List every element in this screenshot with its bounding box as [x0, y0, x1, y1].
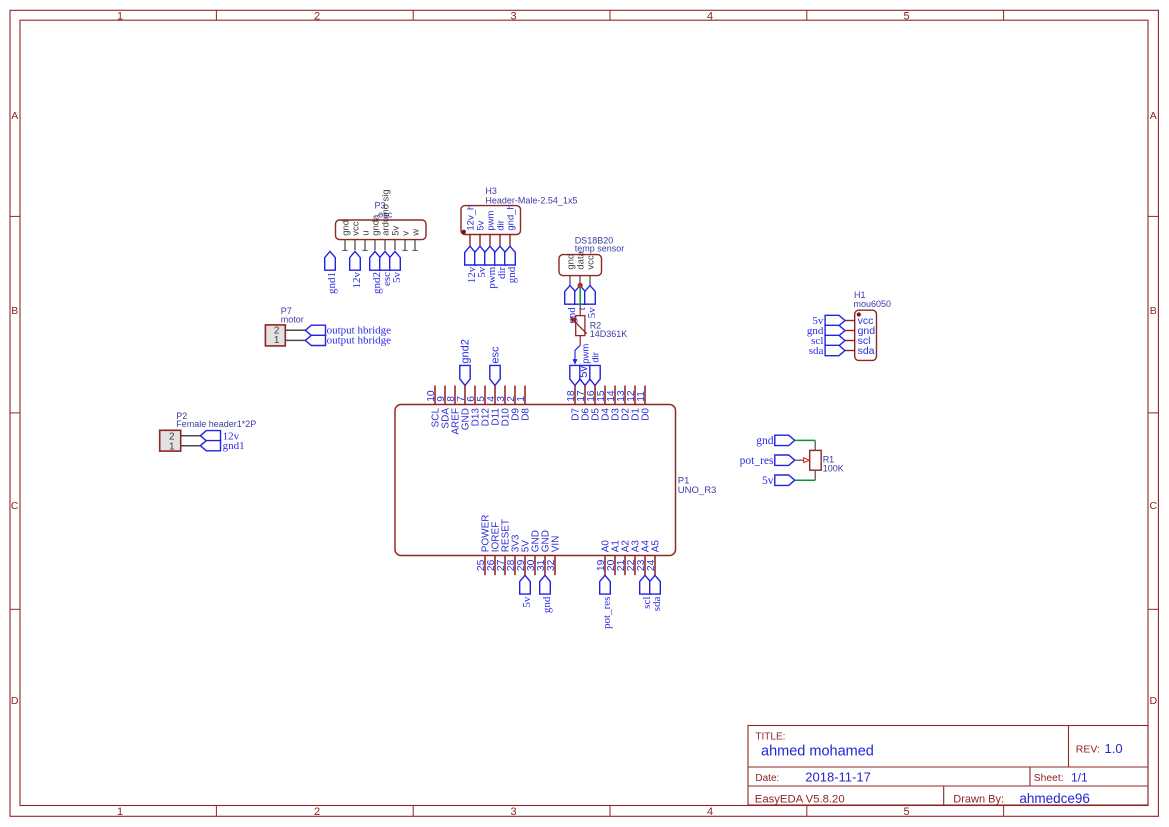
connector P3 esc body [336, 220, 427, 240]
net flag sda on H1 [825, 345, 845, 355]
UNO pin 26 IOREF [494, 556, 496, 576]
svg-text:A5: A5 [651, 540, 662, 553]
svg-text:gnd: gnd [541, 596, 553, 613]
svg-text:sda: sda [858, 345, 875, 357]
UNO pin 12 D1 [634, 386, 636, 405]
varistor R2 body [576, 316, 585, 336]
P7 pin 1 [285, 339, 305, 341]
potentiometer R1 body [810, 450, 822, 470]
svg-text:D: D [11, 695, 19, 707]
net flag gnd1 (floating) [325, 251, 336, 270]
header H3 body [461, 206, 521, 235]
P3 pin 5v [394, 240, 396, 251]
svg-text:ahmed mohamed: ahmed mohamed [761, 743, 874, 759]
UNO pin 21 A2 [624, 556, 626, 576]
H1 pin gnd [845, 330, 855, 332]
UNO pin 32 VIN [554, 556, 556, 576]
UNO pin 10 SCL [434, 386, 436, 405]
svg-text:3: 3 [510, 806, 516, 818]
svg-text:14D361K: 14D361K [590, 329, 628, 339]
svg-text:REV:: REV: [1076, 744, 1100, 756]
R1 bottom pin [814, 470, 816, 480]
svg-text:C: C [11, 500, 19, 512]
svg-text:EasyEDA V5.8.20: EasyEDA V5.8.20 [755, 794, 845, 806]
svg-text:1/1: 1/1 [1071, 771, 1088, 785]
header H1 pin 1 dot [857, 312, 861, 316]
UNO pin 16 D5 [594, 386, 596, 405]
title block divider drawn by [943, 786, 945, 805]
net flag 12v on P3 pin vcc [350, 251, 361, 270]
P3 pin gnda [374, 240, 376, 251]
svg-text:C: C [1150, 500, 1158, 512]
net flag pwm on H3 [485, 246, 496, 265]
svg-text:pot_res: pot_res [740, 455, 774, 467]
net port gnd1 on P2 pin 1 [200, 441, 220, 451]
H3 pin pwm [489, 235, 491, 247]
UNO pin 9 SDA [444, 386, 446, 405]
net flag scl on UNO pin 23 A4 [640, 575, 651, 594]
svg-text:5: 5 [903, 806, 909, 818]
svg-text:ahmedce96: ahmedce96 [1019, 791, 1090, 806]
UNO pin 6 D13 [474, 386, 476, 405]
UNO pin 1 D8 [524, 386, 526, 405]
P3 unconnected pin end mark [402, 249, 407, 251]
svg-text:mou6050: mou6050 [854, 299, 892, 309]
title block divider sheet [1029, 767, 1031, 786]
wire 5v to R1 bottom [795, 479, 816, 481]
net flag sda on UNO pin 24 A5 [650, 575, 661, 594]
P2 pin 1 [181, 445, 201, 447]
UNO pin 23 A4 [644, 556, 646, 576]
svg-text:5v: 5v [578, 365, 590, 377]
svg-text:vcc: vcc [585, 255, 596, 270]
frame row ticks left [10, 215, 20, 217]
svg-text:1: 1 [117, 11, 123, 23]
P3 pin v [404, 240, 406, 251]
svg-text:24: 24 [646, 559, 657, 571]
svg-text:gnd2: gnd2 [460, 339, 472, 363]
frame row ticks right [1148, 215, 1158, 217]
svg-text:32: 32 [546, 559, 557, 571]
varistor R2 arrow head [571, 317, 576, 322]
svg-text:5v: 5v [586, 307, 598, 319]
net flag gnd on H3 [505, 246, 516, 265]
svg-text:gnd1: gnd1 [326, 272, 338, 294]
R1 top pin [814, 440, 816, 450]
UNO pin 2 D9 [514, 386, 516, 405]
net flag 5v on P3 pin 5v [390, 251, 401, 270]
svg-text:VIN: VIN [551, 536, 562, 553]
svg-text:2: 2 [314, 11, 320, 23]
header H3 pin 1 dot [462, 230, 466, 234]
P3 pin gnd [344, 240, 346, 251]
arduino P1 UNO_R3 body [395, 405, 676, 556]
DS18B20 pin gnd [569, 276, 571, 286]
net flag esc on UNO pin 4 [490, 365, 500, 385]
title block outer box [748, 726, 1148, 806]
svg-text:gnd: gnd [756, 435, 774, 447]
wire data net green [579, 285, 581, 306]
UNO pin 29 5V [524, 556, 526, 576]
svg-text:gnd1: gnd1 [223, 440, 245, 452]
header H1 body [855, 310, 877, 360]
net flag 5v to R1 [775, 475, 795, 485]
net flag dir on UNO pin 16 D5 [590, 365, 600, 385]
net flag gnd on H1 [825, 325, 845, 335]
svg-text:output hbridge: output hbridge [327, 335, 392, 347]
net flag 5v on UNO pin 29 [520, 575, 531, 594]
DS18B20 pin data [579, 276, 581, 286]
svg-text:D0: D0 [641, 408, 652, 421]
H3 pin 5v [479, 235, 481, 247]
P3 pin arduino sig [384, 240, 386, 251]
wire R2 top [579, 306, 581, 315]
svg-text:5v: 5v [391, 272, 403, 284]
UNO pin 24 A5 [654, 556, 656, 576]
varistor R2 diagonal stroke [573, 320, 586, 334]
title block divider rev [1068, 726, 1070, 768]
svg-text:B: B [11, 305, 18, 317]
net flag gnd to R1 [775, 435, 795, 445]
svg-text:1: 1 [117, 806, 123, 818]
svg-text:sda: sda [809, 345, 824, 357]
wire R2 bottom [579, 336, 581, 346]
UNO pin 5 D12 [484, 386, 486, 405]
H3 pin gnd_h [509, 235, 511, 247]
H1 pin sda [845, 350, 855, 352]
svg-text:B: B [1150, 305, 1157, 317]
net flag esc on P3 pin arduino sig [380, 251, 391, 270]
P3 unconnected pin end mark [412, 249, 417, 251]
svg-text:5v: 5v [521, 596, 533, 608]
title block line under title row [748, 766, 1148, 768]
svg-text:5v: 5v [762, 475, 774, 487]
svg-text:11: 11 [636, 391, 647, 402]
frame column ticks top [215, 10, 217, 20]
UNO pin 30 GND [534, 556, 536, 576]
svg-text:sda: sda [651, 596, 663, 611]
net flag 5v on H1 [825, 315, 845, 325]
svg-text:esc: esc [490, 346, 502, 364]
svg-text:A: A [1150, 110, 1157, 122]
net flag pot_res on UNO pin 19 A0 [600, 575, 611, 594]
UNO pin 8 AREF [454, 386, 456, 405]
svg-text:motor: motor [281, 314, 304, 324]
svg-text:2018-11-17: 2018-11-17 [805, 770, 871, 785]
UNO pin 11 D0 [644, 386, 646, 405]
svg-text:12v: 12v [351, 272, 363, 289]
net flag scl on H1 [825, 335, 845, 345]
svg-text:1: 1 [274, 335, 280, 346]
P3 pin w [414, 240, 416, 251]
svg-text:4: 4 [707, 806, 713, 818]
svg-text:gnd_h: gnd_h [505, 204, 516, 230]
svg-text:gnd: gnd [506, 266, 518, 283]
svg-text:dir: dir [590, 352, 601, 363]
blue wire arrow head [573, 359, 577, 364]
P3 pin vcc [354, 240, 356, 251]
svg-text:4: 4 [707, 11, 713, 23]
H3 pin dir [499, 235, 501, 247]
svg-text:A: A [11, 110, 18, 122]
net flag gnd on UNO pin 31 [540, 575, 551, 594]
UNO pin 31 GND [544, 556, 546, 576]
UNO pin 20 A1 [614, 556, 616, 576]
svg-text:2: 2 [314, 806, 320, 818]
svg-text:Date:: Date: [755, 773, 779, 784]
svg-text:1: 1 [169, 441, 175, 452]
net flag 5v on H3 [475, 246, 486, 265]
svg-text:100K: 100K [823, 463, 844, 473]
H1 pin vcc [845, 320, 855, 322]
H1 pin scl [845, 340, 855, 342]
UNO pin 25 POWER [484, 556, 486, 576]
svg-text:D: D [1150, 695, 1158, 707]
UNO pin 28 3V3 [514, 556, 516, 576]
R1 wiper arrow head [804, 458, 810, 463]
net flag gnd2 on UNO pin 7 [460, 365, 470, 385]
P3 unconnected pin end mark [362, 249, 367, 251]
title block line under date row [748, 785, 1148, 787]
net port 12v on P2 pin 2 [200, 431, 220, 441]
svg-text:UNO_R3: UNO_R3 [678, 485, 717, 496]
UNO pin 15 D4 [604, 386, 606, 405]
net flag 12v on H3 [465, 246, 476, 265]
wire gnd to R1 top [795, 439, 816, 441]
connector P2 body [160, 430, 181, 451]
UNO pin 22 A3 [634, 556, 636, 576]
UNO pin 27 RESET [504, 556, 506, 576]
UNO pin 3 D10 [504, 386, 506, 405]
connector P7 body [265, 325, 285, 346]
svg-text:Drawn By:: Drawn By: [953, 794, 1004, 806]
P7 pin 2 [285, 329, 305, 331]
UNO pin 7 GND [464, 386, 466, 405]
svg-text:w: w [410, 229, 421, 237]
net flag pwm on UNO pin 17 D6 [580, 365, 590, 385]
P3 pin u [364, 240, 366, 251]
P3 unconnected pin end mark [342, 249, 347, 251]
svg-text:Female header1*2P: Female header1*2P [176, 419, 256, 429]
junction on DS18B20 data pin [578, 283, 583, 288]
UNO pin 18 D7 [574, 386, 576, 405]
P2 pin 2 [181, 435, 201, 437]
svg-text:pot_res: pot_res [601, 597, 613, 629]
net port output hbridge on P7 pin 2 [305, 325, 325, 335]
net flag 5v on DS18B20 vcc [585, 285, 596, 304]
svg-text:5: 5 [903, 11, 909, 23]
UNO pin 17 D6 [584, 386, 586, 405]
R1 wiper pin [795, 459, 806, 461]
net port output hbridge on P7 pin 1 [305, 335, 325, 345]
svg-text:Header-Male-2.54_1x5: Header-Male-2.54_1x5 [485, 195, 577, 205]
net flag pot_res to R1 wiper [775, 455, 795, 465]
H3 pin 12v_h [469, 235, 471, 247]
frame column ticks bottom [215, 806, 217, 817]
sensor DS18B20 body [559, 255, 602, 276]
net flag gnd2 on P3 pin gnda [370, 251, 381, 270]
blue wire from R2 to D7 flag [575, 345, 580, 360]
svg-text:1.0: 1.0 [1105, 741, 1123, 756]
UNO pin 13 D2 [624, 386, 626, 405]
UNO pin 4 D11 [494, 386, 496, 405]
DS18B20 pin vcc [589, 276, 591, 286]
svg-text:TITLE:: TITLE: [755, 731, 785, 742]
svg-text:1: 1 [516, 396, 527, 402]
UNO pin 14 D3 [614, 386, 616, 405]
svg-text:D8: D8 [521, 408, 532, 421]
svg-text:3: 3 [510, 11, 516, 23]
net flag t on DS18B20 data [575, 285, 586, 304]
net flag gnd on DS18B20 [565, 285, 576, 304]
net flag on UNO pin 18 D7 [570, 365, 580, 385]
UNO pin 19 A0 [604, 556, 606, 576]
net flag dir on H3 [495, 246, 506, 265]
svg-text:Sheet:: Sheet: [1034, 773, 1064, 784]
